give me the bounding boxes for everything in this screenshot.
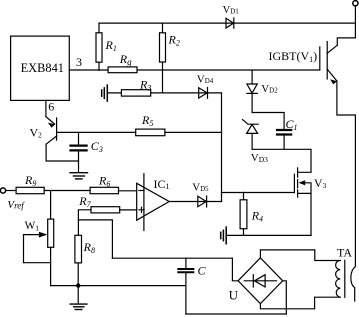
ground below C3 [70, 173, 88, 179]
svg-text:R9: R9 [24, 173, 36, 188]
wire R2 column down to R3 row [162, 70, 164, 93]
wire IGBT emitter to right rail [337, 81, 356, 267]
op-amp IC1 [137, 174, 170, 231]
potentiometer W1 [24, 191, 54, 286]
wire C1 bottom stub [283, 136, 285, 150]
resistor R8 [75, 235, 82, 263]
svg-text:V2: V2 [30, 126, 43, 140]
wire bridge right vertex down [283, 281, 287, 314]
wire middle column x221.5 [221, 93, 223, 201]
svg-text:Vref: Vref [7, 199, 25, 211]
diode VD2 [247, 84, 257, 113]
resistor R2 [160, 23, 166, 70]
svg-text:VD1: VD1 [223, 5, 240, 16]
wire R8 bottom [77, 263, 79, 286]
svg-text:W1: W1 [25, 220, 40, 232]
wire R6 to op-amp [119, 190, 137, 192]
diode VD1 [226, 18, 234, 28]
wire zener row to V3 drain [252, 149, 311, 172]
transistor IGBT V1 [320, 42, 338, 85]
svg-text:IGBT(V1): IGBT(V1) [269, 49, 318, 64]
resistor R7 [91, 207, 120, 213]
svg-text:VD5: VD5 [192, 181, 209, 193]
wire V2 base row y132.4 [57, 131, 136, 133]
capacitor C3 [71, 132, 87, 172]
diode VD5 [198, 196, 207, 207]
svg-text:VD2: VD2 [261, 83, 278, 95]
wire pin3 gate bus y70.4 [69, 69, 319, 71]
wire bridge bottom to TA [260, 297, 340, 309]
resistor R1 [96, 23, 102, 70]
svg-text:R3: R3 [139, 77, 151, 92]
wire VD2 branch stub [251, 70, 253, 84]
terminal top right [353, 1, 358, 24]
wire feedback tap y219.9 [78, 220, 112, 258]
zener VD3 [243, 120, 259, 150]
svg-text:R2: R2 [168, 33, 180, 48]
EXB841 block U-EXB [11, 36, 70, 100]
resistor R5 [136, 129, 165, 136]
wire R7 left to R8 [78, 210, 91, 236]
transistor V2 [46, 100, 79, 161]
svg-text:R7: R7 [78, 194, 91, 209]
terminal Vref [0, 188, 16, 193]
wire R3-VD4 row y92.9 [107, 92, 221, 94]
svg-text:R4: R4 [251, 209, 263, 224]
wire op-amp output to VD5 [169, 201, 221, 203]
wire R9 to R6 row y190.5 [44, 190, 90, 192]
resistor Rg [108, 67, 137, 73]
junction dot ground bus [76, 283, 80, 287]
wire collector feed [337, 23, 355, 45]
ground main [70, 286, 87, 310]
svg-text:R6: R6 [98, 173, 110, 188]
wire R5 to column [165, 131, 222, 133]
wire sample line y258.2 [112, 257, 232, 259]
svg-text:EXB841: EXB841 [21, 61, 64, 75]
svg-text:C1: C1 [286, 117, 298, 132]
svg-text:3: 3 [76, 55, 82, 69]
wire top bus y23.1 [99, 22, 355, 24]
wire R7 to op-amp [120, 209, 137, 211]
bridge rectifier U [238, 258, 283, 304]
svg-text:6: 6 [48, 100, 54, 114]
wire VD2-C1 top branch [252, 113, 284, 129]
diode VD4 [199, 88, 208, 99]
svg-text:V3: V3 [314, 176, 327, 190]
svg-text:R8: R8 [83, 240, 95, 255]
svg-text:TA: TA [337, 246, 352, 260]
transformer TA secondary winding [336, 261, 341, 298]
svg-text:C3: C3 [91, 139, 103, 154]
capacitor C1 [277, 130, 291, 135]
svg-text:C: C [198, 264, 207, 278]
svg-text:R1: R1 [105, 38, 117, 53]
capacitor C [178, 258, 193, 314]
transistor V3 MOSFET [294, 168, 311, 236]
ground rotated left at R3 [102, 85, 108, 101]
svg-text:U: U [229, 287, 239, 302]
svg-text:VD4: VD4 [197, 73, 214, 85]
ground rotated left at R4 row [221, 227, 227, 244]
wire ground bus y285.3 [51, 285, 186, 287]
svg-text:R5: R5 [141, 113, 153, 128]
transformer TA core [344, 260, 346, 297]
wire source-R4 bottom row y235.1 [227, 234, 311, 236]
wire bridge left vertex link [232, 258, 238, 281]
resistor R6 [90, 187, 118, 193]
transformer TA primary wire [351, 267, 356, 302]
svg-text:IC1: IC1 [154, 177, 170, 191]
svg-text:VD3: VD3 [251, 152, 268, 164]
wire bottom line y314 [186, 313, 286, 315]
resistor R4 [240, 193, 247, 236]
resistor R9 [16, 187, 44, 193]
wire gate row y192.5 [222, 192, 295, 194]
resistor R3 [121, 90, 150, 96]
svg-text:Rg: Rg [119, 52, 132, 67]
wire bridge top to TA [260, 250, 340, 261]
